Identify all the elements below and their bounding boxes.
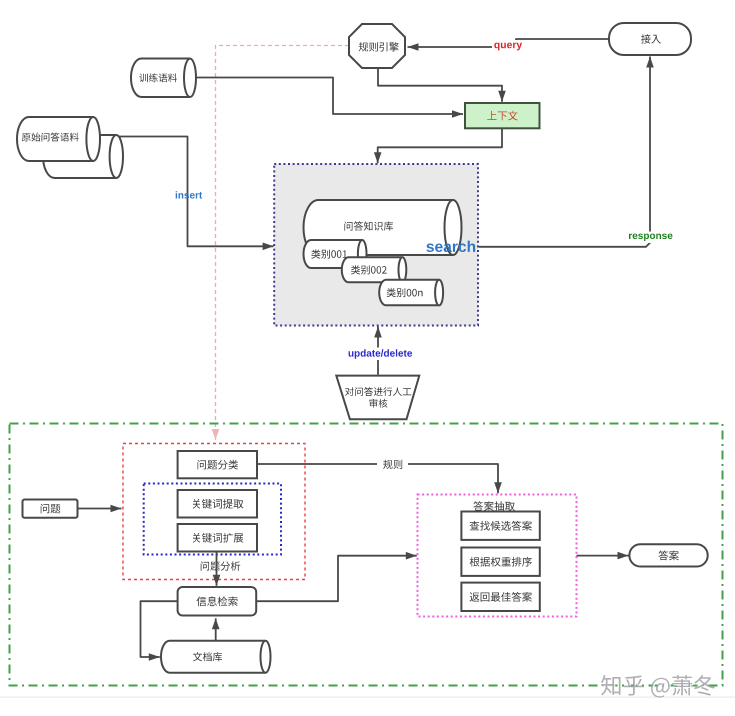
label insert [176, 191, 203, 198]
wire 文档库 to 信息检索 [212, 618, 220, 640]
octagon 规则引擎 [349, 24, 405, 68]
wire 答案抽取 to 答案 [577, 552, 629, 560]
divider line bottom [0, 697, 735, 698]
terminator 答案 [629, 544, 707, 566]
process 关键词扩展 [178, 524, 257, 552]
wire response: 知识库容器 to 接入 [479, 57, 654, 247]
wire 训练语料 to 上下文 [196, 78, 463, 118]
wire 信息检索 to 答案抽取 [257, 552, 417, 601]
cylinder 类别001 [304, 240, 367, 268]
container 问题分析 (red dashed box) [123, 444, 305, 580]
wire update/delete: 审核 to 知识库容器 [374, 327, 382, 375]
label search [426, 241, 475, 252]
process 查找候选答案 [461, 512, 539, 540]
label update/delete [344, 348, 416, 361]
wire 规则引擎 to 上下文 [378, 68, 506, 102]
container 知识库 (dotted blue box) [274, 164, 478, 326]
label query [492, 40, 524, 53]
process 问题分类 [178, 451, 257, 478]
cylinder 问答知识库 [304, 200, 462, 255]
cylinder 类别00n [379, 280, 443, 306]
wire insert: 原始问答语料 to 知识库容器 [100, 137, 274, 251]
cylinder 原始问答语料-back [43, 135, 123, 178]
cylinder 原始问答语料 [17, 117, 100, 161]
label 规则 [377, 457, 408, 472]
watermark 知乎@萧冬 [601, 675, 716, 699]
cylinder 训练语料 [131, 59, 196, 98]
cylinder 文档库 [161, 641, 271, 673]
wire 问题 to 问题分析容器 [78, 505, 122, 513]
process 关键词提取 [178, 490, 257, 518]
terminator 接入 [609, 23, 691, 55]
label 问题分析 [201, 561, 241, 570]
process 上下文 [465, 103, 540, 128]
label response [628, 232, 673, 244]
container 检索系统 (green dash-dot box) [10, 424, 723, 686]
container 关键词 (blue dotted box) [144, 484, 281, 555]
process 问题 [23, 500, 78, 518]
wire 信息检索 to 文档库 [141, 601, 178, 661]
wire query: 接入 to 规则引擎 [408, 39, 610, 51]
process 根据权重排序 [461, 548, 539, 576]
wire insert-dashed: 规则引擎 to 问题分类 (pink dashed) [212, 46, 349, 441]
wire 规则: 问题分类 to 答案抽取 [257, 464, 502, 493]
process 信息检索 [178, 587, 257, 616]
process 返回最佳答案 [461, 583, 539, 611]
wire 关键词扩展 to 信息检索 [213, 552, 221, 586]
trapezoid 对问答进行人工审核 [336, 376, 419, 420]
cylinder 类别002 [342, 257, 407, 282]
wire 上下文 to 知识库容器 [374, 129, 502, 164]
container 答案抽取 (magenta dotted box) [418, 495, 577, 617]
label 答案抽取 [473, 501, 515, 511]
